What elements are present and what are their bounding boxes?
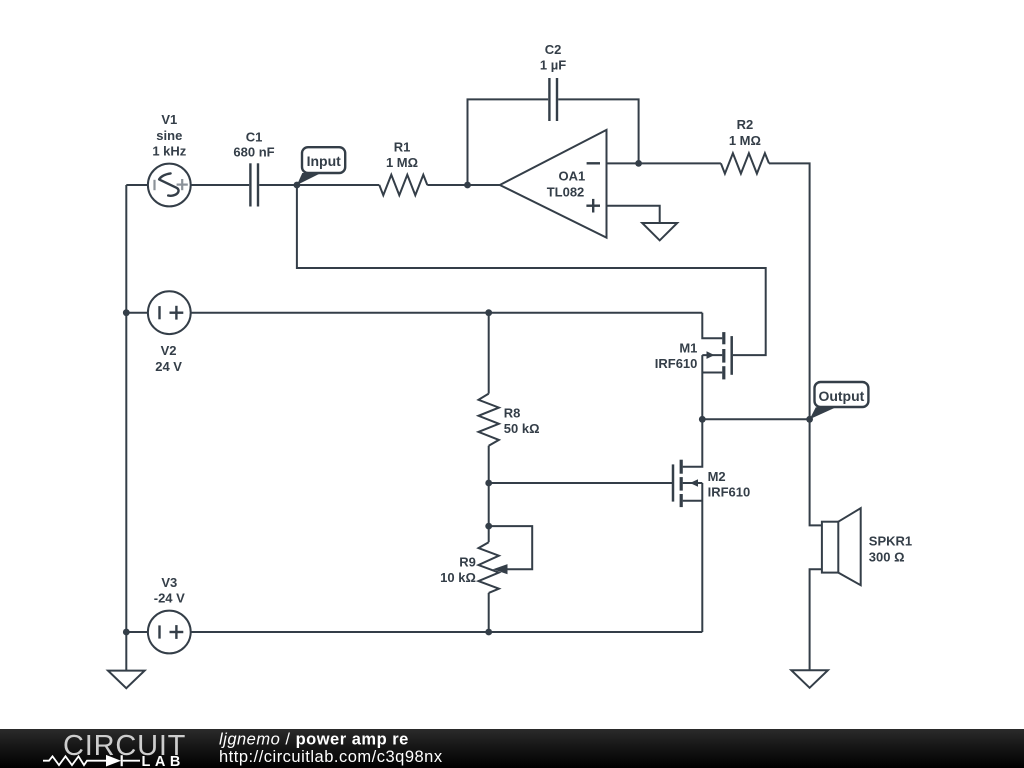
svg-text:50 kΩ: 50 kΩ xyxy=(504,421,540,436)
junction: node B (op-amp output) xyxy=(464,182,471,189)
svg-text:OA1: OA1 xyxy=(559,168,586,183)
node Input flag xyxy=(297,147,345,185)
junction: gate node xyxy=(485,480,492,487)
wire: inverting node to R2 xyxy=(639,162,721,164)
wire: V1 to C1 xyxy=(191,184,250,186)
wire: C2 to inverting input node xyxy=(558,99,638,163)
svg-text:R2: R2 xyxy=(737,117,754,132)
svg-text:IRF610: IRF610 xyxy=(655,356,698,371)
resistor R1 1 MOhm xyxy=(379,139,427,195)
svg-text:1 kHz: 1 kHz xyxy=(152,144,186,159)
ground (left rail) xyxy=(108,671,145,689)
wire: V3 left lead xyxy=(126,631,148,633)
junction: output node at M1 source xyxy=(699,416,706,423)
wire: left rail vertical xyxy=(125,185,127,632)
wire: left rail to ground xyxy=(125,632,127,671)
junction: V2 on left rail xyxy=(123,309,130,316)
wire: gate node to M2 gate xyxy=(489,482,673,484)
speaker SPKR1 300 Ohm xyxy=(822,508,912,585)
voltage source V3 -24 V xyxy=(148,575,191,653)
svg-text:1 µF: 1 µF xyxy=(540,58,566,73)
wire: V2 left lead xyxy=(126,312,148,314)
svg-text:Input: Input xyxy=(307,153,342,169)
svg-text:SPKR1: SPKR1 xyxy=(869,533,912,548)
ground (speaker) xyxy=(791,670,828,688)
svg-text:R8: R8 xyxy=(504,405,521,420)
junction: R8 top xyxy=(485,309,492,316)
svg-text:TL082: TL082 xyxy=(547,185,585,200)
svg-text:24 V: 24 V xyxy=(155,359,182,374)
junction: inverting input node xyxy=(635,160,642,167)
svg-text:ljgnemo / power amp re: ljgnemo / power amp re xyxy=(219,731,409,749)
wire: R2 to output rail xyxy=(769,163,810,419)
svg-text:M2: M2 xyxy=(708,469,726,484)
svg-text:LAB: LAB xyxy=(142,754,185,768)
capacitor C2 1 uF xyxy=(540,42,566,121)
wire: node B to op-amp apex xyxy=(468,184,500,186)
wire: output node down to speaker xyxy=(810,419,822,525)
mosfet M2 IRF610 xyxy=(673,419,750,632)
wire: speaker bottom to ground xyxy=(810,569,822,670)
wire: node B up to C2 xyxy=(468,99,549,185)
footer title text xyxy=(219,731,409,749)
junction: R9 bottom xyxy=(485,629,492,636)
junction: input node xyxy=(294,182,301,189)
svg-text:C2: C2 xyxy=(545,42,562,57)
wire: op-amp inverting pin xyxy=(607,162,639,164)
svg-text:V3: V3 xyxy=(161,575,177,590)
mosfet M1 IRF610 xyxy=(655,313,732,420)
svg-text:V2: V2 xyxy=(161,343,177,358)
voltage source V2 24 V xyxy=(148,291,191,374)
wire: V3 to M2 source (bottom rail) xyxy=(191,631,703,633)
svg-text:300 Ω: 300 Ω xyxy=(869,550,905,565)
wire: op-amp non-inverting pin to ground xyxy=(607,206,660,223)
footer url text xyxy=(219,748,443,766)
voltage source V1 (sine 1 kHz) xyxy=(148,112,191,206)
ground (op-amp non-inverting) xyxy=(642,223,677,240)
resistor R8 50 kOhm xyxy=(479,313,540,483)
wire: R1 to node B xyxy=(427,184,467,186)
svg-text:680 nF: 680 nF xyxy=(233,144,274,159)
svg-text:C1: C1 xyxy=(246,130,263,145)
wire: input node down and across to gates xyxy=(297,185,766,355)
junction: R9 top / wiper xyxy=(485,523,492,530)
svg-text:sine: sine xyxy=(156,128,182,143)
svg-text:IRF610: IRF610 xyxy=(708,485,751,500)
node Output flag xyxy=(810,382,869,419)
wire: C1 to input node xyxy=(259,184,297,186)
svg-text:-24 V: -24 V xyxy=(154,591,185,606)
wire: output node across xyxy=(702,418,809,420)
svg-text:1 MΩ: 1 MΩ xyxy=(386,155,418,170)
capacitor C1 680 nF xyxy=(233,130,274,207)
junction: output node right xyxy=(806,416,813,423)
svg-text:http://circuitlab.com/c3q98nx: http://circuitlab.com/c3q98nx xyxy=(219,748,443,766)
wire: gate node to R9 xyxy=(488,483,490,526)
potentiometer R9 10 kOhm xyxy=(440,526,532,632)
junction: V3 on left rail xyxy=(123,629,130,636)
CircuitLab logo resistor-diode glyph xyxy=(43,754,185,768)
svg-text:10 kΩ: 10 kΩ xyxy=(440,570,476,585)
svg-text:R9: R9 xyxy=(459,555,476,570)
svg-text:1 MΩ: 1 MΩ xyxy=(729,133,761,148)
footer bar xyxy=(0,729,1024,768)
svg-text:M1: M1 xyxy=(679,341,697,356)
svg-text:Output: Output xyxy=(818,388,864,404)
op-amp OA1 TL082 xyxy=(500,130,607,238)
CircuitLab logo text xyxy=(63,730,186,762)
wire: input node to R1 xyxy=(297,184,379,186)
svg-text:V1: V1 xyxy=(161,112,177,127)
wire: V1 left lead xyxy=(126,184,148,186)
wire: V2 to M1 drain xyxy=(191,312,703,314)
resistor R2 1 MOhm xyxy=(721,117,769,174)
svg-text:R1: R1 xyxy=(394,139,411,154)
